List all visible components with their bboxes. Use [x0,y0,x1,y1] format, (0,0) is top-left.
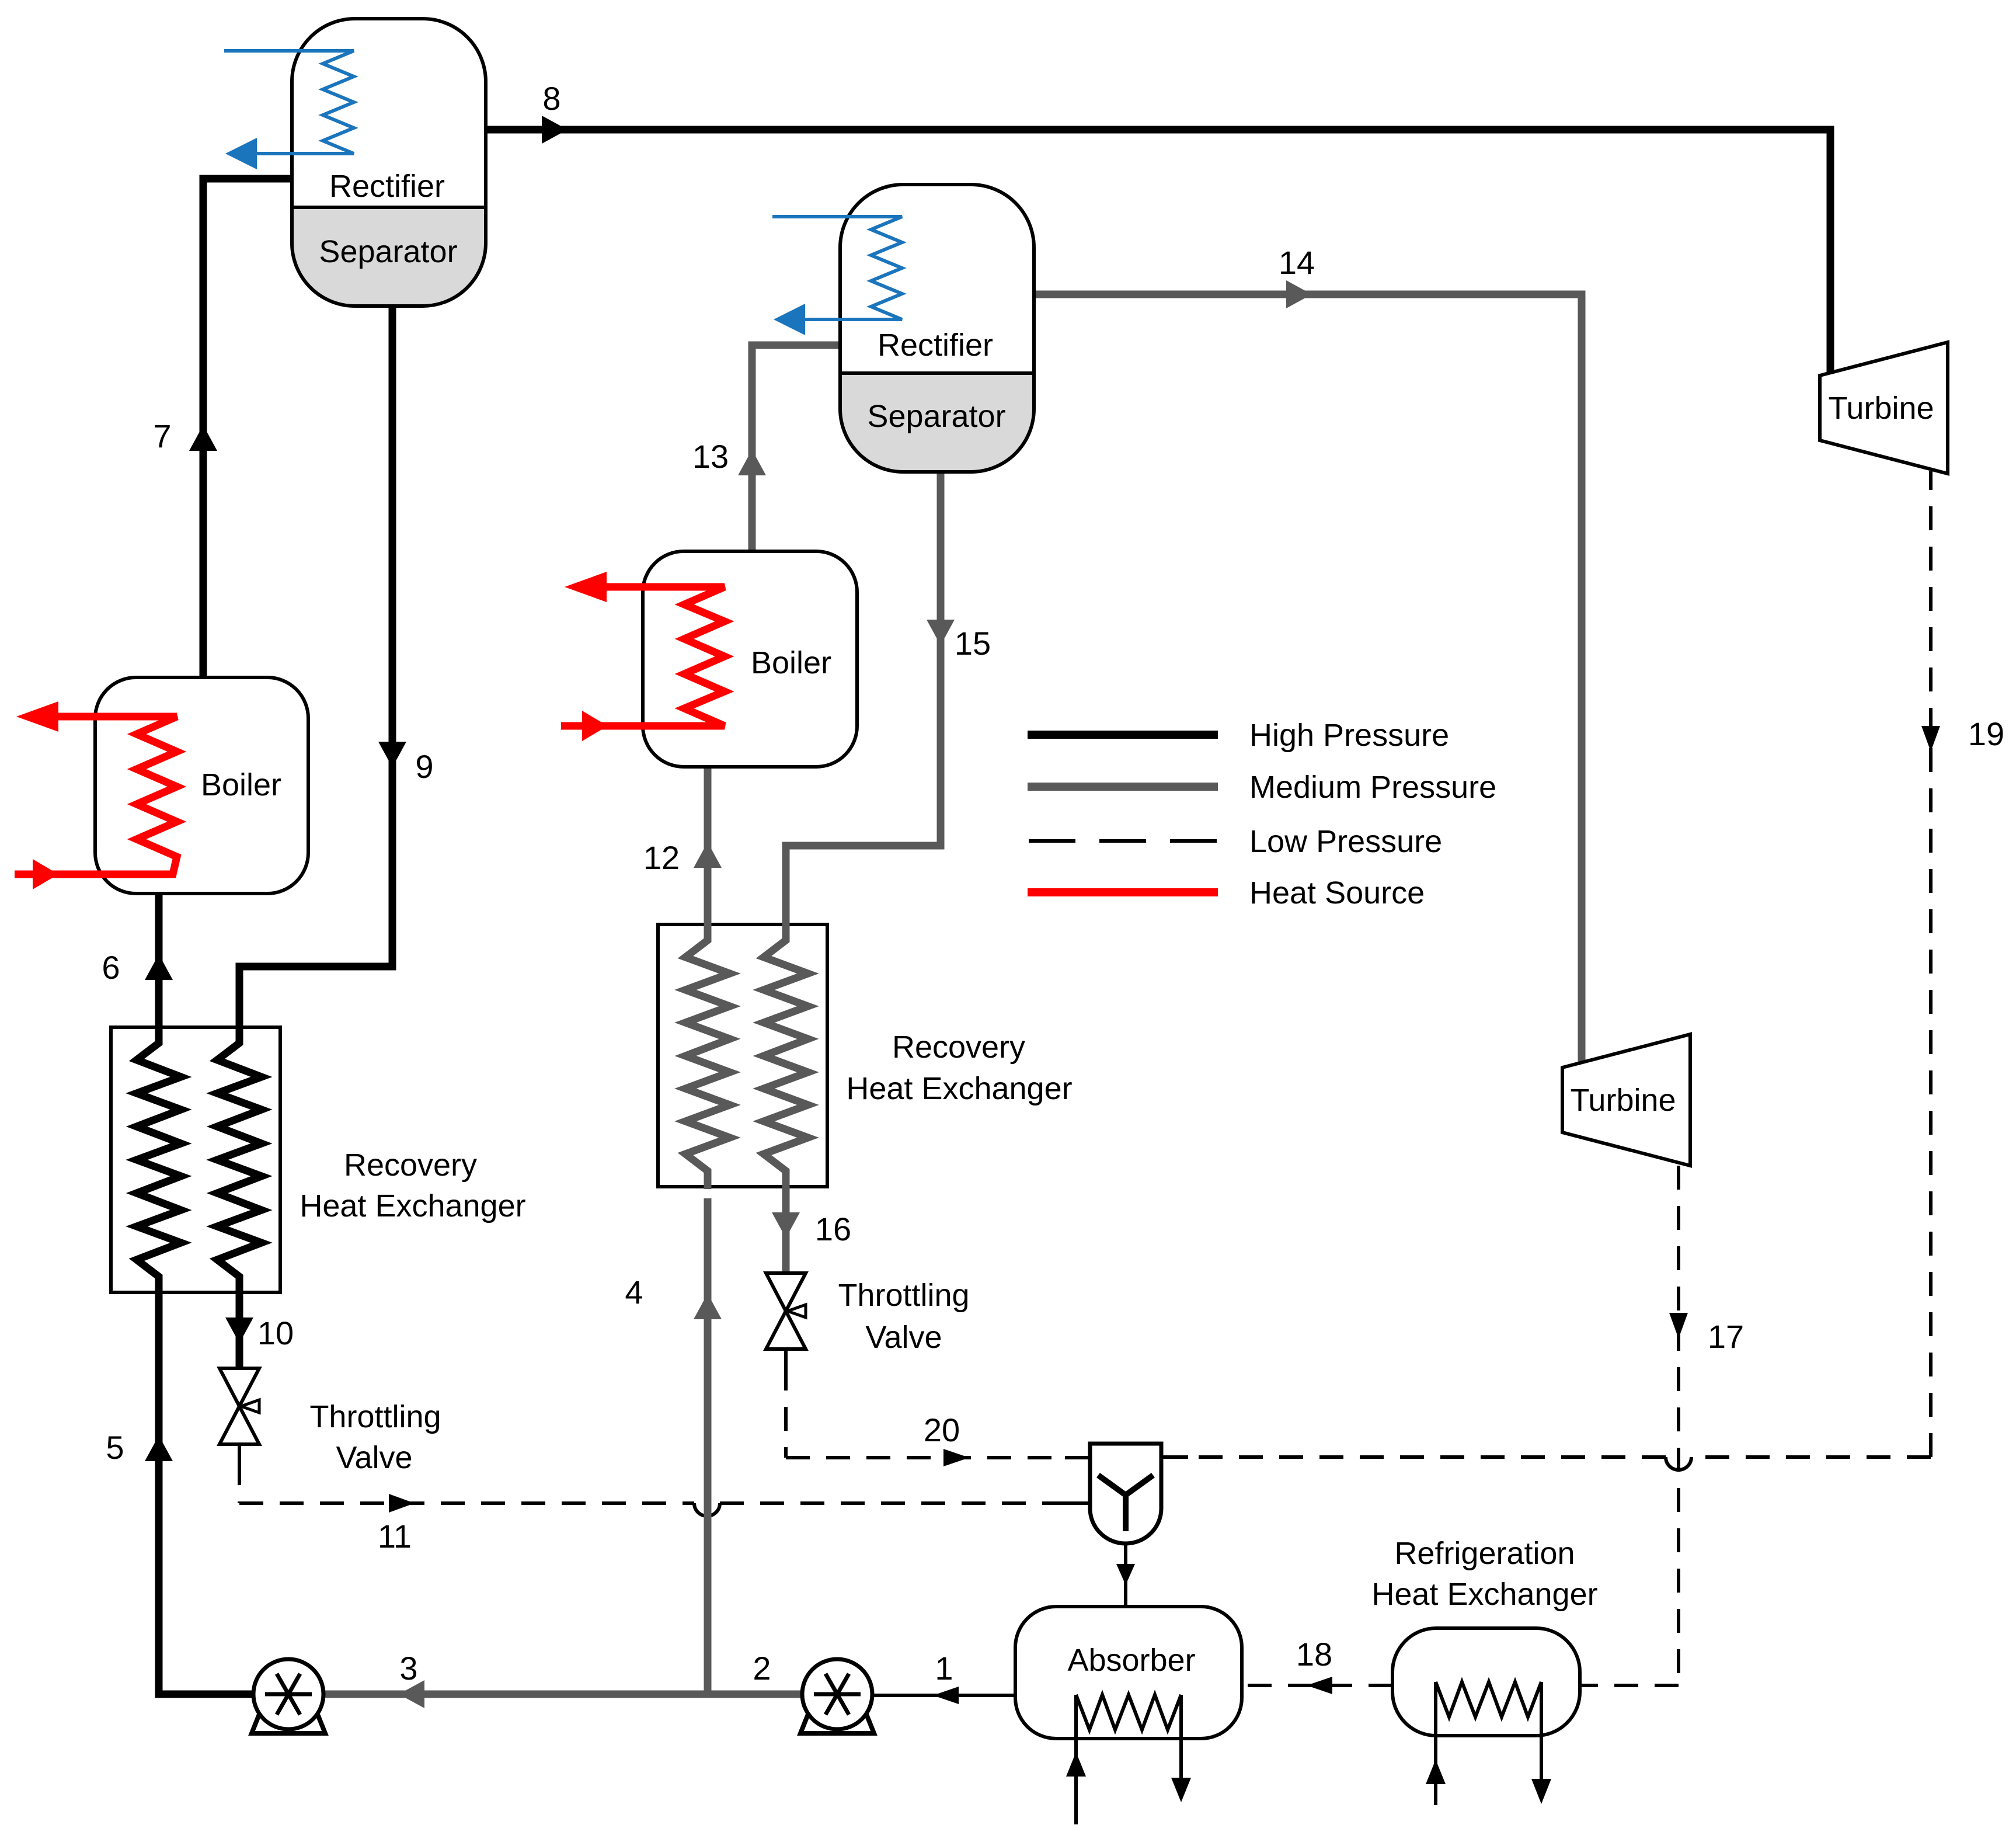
svg-text:3: 3 [399,1650,417,1687]
svg-text:Heat Exchanger: Heat Exchanger [1371,1577,1597,1612]
svg-text:Throttling: Throttling [838,1278,969,1313]
svg-text:Heat Exchanger: Heat Exchanger [300,1188,525,1223]
svg-text:5: 5 [106,1429,124,1466]
svg-text:Boiler: Boiler [751,645,831,680]
svg-text:Boiler: Boiler [201,767,281,802]
svg-text:4: 4 [625,1274,643,1310]
svg-text:19: 19 [1968,715,2004,752]
svg-text:8: 8 [542,80,560,117]
svg-text:Turbine: Turbine [1828,391,1934,426]
svg-text:Low Pressure: Low Pressure [1249,824,1442,859]
svg-text:Valve: Valve [865,1320,942,1355]
svg-text:12: 12 [643,839,680,876]
svg-text:Heat Exchanger: Heat Exchanger [846,1071,1072,1106]
svg-text:18: 18 [1296,1636,1332,1673]
svg-text:Separator: Separator [319,234,457,269]
svg-text:2: 2 [753,1650,771,1687]
svg-text:Turbine: Turbine [1570,1083,1676,1118]
svg-text:Absorber: Absorber [1067,1643,1195,1678]
svg-text:14: 14 [1279,244,1315,281]
svg-text:11: 11 [378,1518,412,1555]
svg-text:1: 1 [935,1650,953,1687]
svg-text:15: 15 [955,625,991,662]
svg-text:Refrigeration: Refrigeration [1394,1536,1575,1571]
svg-text:7: 7 [153,418,171,454]
svg-text:Heat Source: Heat Source [1249,875,1425,910]
svg-text:9: 9 [415,748,433,785]
svg-text:Medium Pressure: Medium Pressure [1249,770,1496,805]
svg-text:10: 10 [257,1315,294,1351]
svg-text:6: 6 [102,949,120,986]
svg-text:Separator: Separator [867,399,1005,434]
svg-text:Recovery: Recovery [892,1030,1025,1065]
svg-text:16: 16 [815,1211,851,1247]
svg-text:Throttling: Throttling [309,1399,441,1434]
svg-text:Recovery: Recovery [344,1148,477,1183]
svg-text:Rectifier: Rectifier [878,328,993,363]
svg-text:High Pressure: High Pressure [1249,718,1449,753]
svg-text:Rectifier: Rectifier [329,169,445,204]
svg-text:13: 13 [692,438,729,475]
svg-text:Valve: Valve [336,1440,412,1475]
svg-text:17: 17 [1708,1318,1744,1355]
svg-text:20: 20 [924,1412,960,1448]
